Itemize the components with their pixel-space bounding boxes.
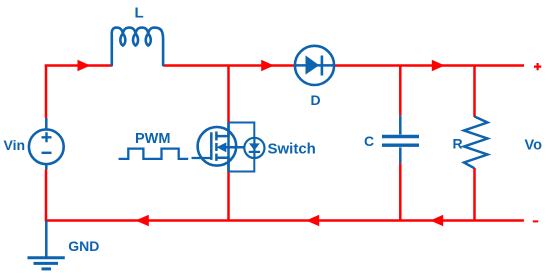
- wire bottom rail: [46, 219, 524, 220]
- diode triangle: [306, 55, 320, 74]
- switch diode triangle: [249, 143, 260, 150]
- svg-text:Vo: Vo: [525, 137, 543, 153]
- switch circle: [244, 138, 264, 158]
- arrow left on bottom rail segment 3: [430, 215, 443, 226]
- wire capacitor branch upper red: [399, 66, 402, 116]
- wire resistor branch upper red: [473, 66, 476, 118]
- wire left branch lower red: [45, 170, 48, 221]
- diode cathode bar: [321, 56, 324, 76]
- svg-text:C: C: [364, 133, 374, 149]
- wire mosfet branch lower red: [227, 172, 230, 221]
- wire top rail middle segment: [163, 64, 295, 67]
- svg-text:L: L: [135, 4, 144, 21]
- wire gate lead: [192, 157, 212, 159]
- Vin minus sign: [42, 152, 52, 154]
- transistor Q1 mosfet circle: [198, 127, 237, 166]
- mosfet channel segment top: [215, 132, 218, 141]
- wire Vin bottom stub blue: [45, 164, 48, 169]
- wire resistor branch lower red: [473, 168, 476, 221]
- mosfet body arrow: [217, 142, 227, 152]
- mosfet channel segment middle: [215, 143, 218, 151]
- wire GND stem blue: [45, 221, 48, 257]
- wire Vin top stub blue: [45, 118, 48, 130]
- ground bar 2: [34, 262, 59, 265]
- inductor L coil: [112, 28, 163, 65]
- diode axis line: [295, 64, 334, 67]
- mosfet channel segment bottom: [215, 154, 218, 161]
- wire capacitor bottom stub blue: [399, 147, 402, 163]
- capacitor C top plate: [382, 135, 419, 138]
- arrow right on top rail segment 1: [78, 60, 91, 71]
- ground bar 3: [42, 267, 52, 270]
- output minus terminal: [533, 220, 538, 222]
- capacitor C bottom plate: [382, 143, 419, 146]
- mosfet source lead: [216, 158, 228, 172]
- wire capacitor branch lower red: [399, 163, 402, 220]
- wire top rail right segment: [334, 64, 524, 67]
- ground bar 1: [28, 256, 65, 259]
- output plus terminal: [534, 63, 541, 70]
- wire left branch upper (Vin top lead red): [45, 66, 48, 119]
- switch parallel box wire: [229, 123, 255, 172]
- Vin plus sign: [42, 132, 52, 142]
- svg-text:GND: GND: [68, 238, 99, 254]
- arrow right on top rail segment 2: [261, 60, 274, 71]
- voltage source Vin circle: [29, 129, 64, 164]
- switch circle vertical line: [253, 138, 255, 158]
- wire mosfet branch upper red: [227, 66, 230, 123]
- diode D circle: [295, 46, 334, 85]
- switch diode bar: [249, 151, 260, 153]
- mosfet vertical drain-source link: [227, 123, 230, 172]
- mosfet body line to switch: [224, 146, 244, 149]
- svg-text:PWM: PWM: [135, 131, 170, 147]
- svg-text:Switch: Switch: [268, 140, 316, 157]
- mosfet gate bar: [210, 132, 213, 160]
- resistor R zigzag: [464, 117, 488, 169]
- PWM square wave: [119, 149, 189, 159]
- arrow right on top rail segment 3: [432, 60, 445, 71]
- svg-text:D: D: [311, 92, 321, 108]
- svg-text:R: R: [453, 136, 463, 152]
- mosfet drain lead: [216, 123, 228, 137]
- wire capacitor top stub blue: [399, 115, 402, 134]
- arrow left on bottom rail segment 1: [136, 215, 149, 226]
- wire top rail left segment: [46, 64, 112, 65]
- arrow left on bottom rail segment 2: [306, 215, 319, 226]
- svg-text:Vin: Vin: [4, 137, 26, 153]
